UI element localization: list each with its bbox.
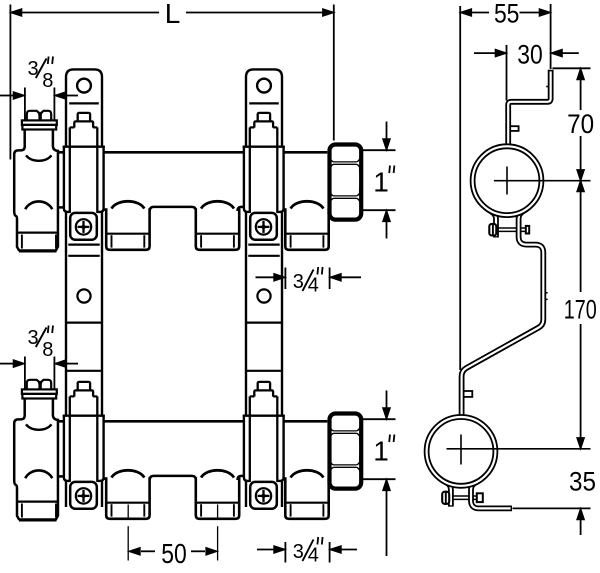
side view: upper clamp centre cross — [494, 167, 591, 195]
dimension 1" (top union nut) — [363, 122, 396, 239]
side view: lower clamp left flange — [446, 482, 451, 506]
svg-text:8: 8 — [42, 339, 53, 361]
side view: hole mark on front face — [546, 86, 549, 88]
side view: lower clamp centre cross — [447, 435, 591, 465]
svg-text:50: 50 — [161, 538, 187, 568]
side view: lower clamp right flange with foot — [471, 482, 512, 508]
svg-text:1: 1 — [373, 167, 389, 198]
svg-text:170: 170 — [564, 295, 597, 325]
side view: upper bracket hanger tab — [507, 126, 519, 131]
svg-text:L: L — [165, 0, 181, 29]
top manifold bar assembly — [14, 111, 361, 252]
dimension 170 (clamp spacing) — [564, 181, 597, 448]
side view: lower screw head and nut — [442, 492, 483, 504]
side view: upper screw head and nut — [489, 224, 529, 236]
side view: upper clamp right flange and lower strap run — [462, 211, 544, 419]
dimension 30 (strap offset) — [474, 39, 579, 100]
side view: upper pipe clamp ring — [473, 146, 542, 215]
side view: bracket upper section profile — [508, 70, 550, 148]
svg-text:8: 8 — [42, 70, 53, 92]
wall bracket strap 1 (front view) — [66, 69, 102, 507]
side view: lower clamp screw shaft — [447, 495, 479, 500]
wall bracket strap 2 (front view) — [246, 69, 282, 507]
side view: lower bracket hanger tab — [460, 391, 472, 397]
centre line of bottom outlet 2 — [217, 505, 219, 561]
side view: lower pipe clamp ring — [427, 417, 496, 486]
svg-text:30: 30 — [517, 39, 543, 69]
side view: upper clamp left flange — [491, 211, 496, 237]
dimension 50 (outlet spacing) — [130, 538, 217, 569]
dimension 3/8" (top valve) — [0, 57, 78, 121]
svg-text:70: 70 — [567, 109, 594, 139]
dimension 3/4" (bottom bar outlet) — [257, 537, 357, 567]
svg-text:35: 35 — [569, 467, 596, 497]
dimension 55 (bracket depth) — [461, 0, 550, 69]
dimension 35 (lower clamp height) — [513, 467, 597, 535]
dimension 70 (top clamp height) — [553, 68, 595, 180]
dimension 1" (bottom union nut) — [363, 391, 396, 557]
svg-text:1: 1 — [373, 436, 389, 467]
side view: upper clamp screw shaft — [495, 227, 528, 232]
dimension 3/4" (top bar outlet) — [256, 267, 362, 297]
bottom manifold bar assembly — [14, 380, 361, 521]
centre line of bottom outlet 1 — [127, 505, 129, 561]
svg-text:55: 55 — [494, 0, 520, 29]
dimension 3/8" (bottom valve) — [0, 326, 78, 389]
side view: seam marks on strap — [545, 293, 548, 300]
side view: wall reference line — [459, 6, 461, 370]
dimension L (overall length) — [10, 0, 333, 160]
svg-text:4: 4 — [308, 275, 319, 297]
svg-text:4: 4 — [308, 545, 319, 567]
